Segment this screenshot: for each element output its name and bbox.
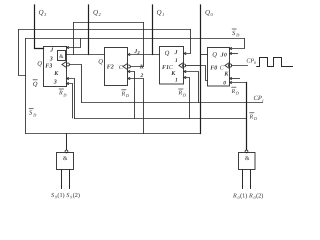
wire F1 K pin: [184, 72, 199, 103]
wire R0 input pins: [243, 170, 251, 189]
svg-text:S: S: [66, 192, 69, 199]
svg-text:D: D: [235, 91, 239, 96]
pin wedge F0 S: [230, 47, 232, 49]
svg-text:R: R: [121, 91, 126, 97]
wire S9 input pins: [62, 170, 70, 189]
svg-text:0: 0: [224, 53, 227, 59]
svg-text:(1): (1): [57, 192, 64, 199]
svg-text:&: &: [63, 156, 68, 162]
wire F1 RD pin: [184, 78, 190, 119]
wire L1 Q1 feedback top: [74, 22, 144, 24]
svg-text:D: D: [253, 116, 257, 121]
svg-text:&: &: [245, 156, 250, 162]
wire F3 clock to CP1: [69, 65, 81, 103]
label RD under F0: [231, 87, 239, 95]
wire F1 Q pin: [144, 54, 160, 56]
wire F1 clock from Q0: [186, 65, 201, 67]
wire L1 drop to AND line: [73, 23, 75, 55]
svg-text:F2: F2: [107, 64, 114, 70]
svg-text:1: 1: [262, 98, 264, 103]
svg-text:D: D: [235, 33, 239, 38]
svg-text:S: S: [51, 192, 54, 199]
clock wedge F3: [62, 62, 67, 68]
pin wedge F0 K: [230, 77, 232, 79]
svg-text:D: D: [182, 92, 186, 97]
clock wedge F1: [179, 63, 184, 69]
pin wedge F3 J: [67, 46, 69, 48]
svg-text:1: 1: [162, 12, 164, 17]
label F3 Q outputs: [33, 60, 43, 88]
wire Q3 riser: [35, 5, 44, 49]
wire F3 K pin: [67, 79, 75, 119]
wire Q2 riser: [88, 5, 90, 55]
wire F0 Qbar link: [201, 66, 208, 81]
svg-text:&: &: [59, 54, 64, 60]
wire F2 K pin: [128, 72, 135, 119]
label Q2: [93, 8, 102, 17]
label RD under F3: [58, 89, 66, 97]
pin wedge F0 J: [230, 52, 232, 54]
wire F2 RD pin: [128, 79, 144, 134]
label J2 K 2 right of F2: [133, 49, 145, 79]
pin wedge F3 RD: [67, 82, 69, 84]
flip-flop F0 box: [208, 48, 230, 87]
flip-flop F2 box: [105, 48, 128, 86]
label Q1: [157, 8, 165, 17]
svg-text:D: D: [125, 93, 129, 98]
wire SD entry to F0: [230, 39, 245, 49]
label RD under F2: [121, 90, 129, 98]
svg-text:0: 0: [223, 81, 226, 87]
wire CP1 line: [82, 102, 263, 104]
NAND gate R0 (right): [245, 150, 248, 153]
wire F3 RD pin: [67, 84, 73, 119]
pin wedge F1 J: [184, 52, 186, 54]
label SD top right: [232, 29, 239, 38]
clock bubble F1: [183, 64, 186, 67]
svg-text:Q: Q: [93, 8, 98, 16]
label RD right riser: [249, 113, 257, 121]
clock bubble F0: [229, 64, 232, 67]
wire Q1 riser: [152, 5, 154, 55]
svg-text:D: D: [62, 92, 66, 97]
svg-text:Q: Q: [157, 8, 162, 16]
clock bubble F2: [127, 65, 130, 68]
label F3 internals: [45, 47, 59, 85]
clock wedge F0: [225, 63, 230, 69]
label F1 internals: [162, 50, 179, 83]
wire SD riser left: [25, 39, 27, 134]
svg-text:Q: Q: [39, 8, 44, 16]
svg-text:R: R: [248, 192, 253, 199]
wire bottom line: [26, 133, 201, 135]
svg-text:Q: Q: [165, 50, 170, 57]
pin wedge F1 K: [184, 70, 186, 72]
svg-text:R: R: [58, 91, 63, 97]
wire F0 RD to right gate: [230, 82, 247, 84]
wire F0 J stub: [230, 53, 238, 55]
pin wedge F0 RD: [230, 81, 232, 83]
clock bubble F3: [66, 63, 69, 66]
svg-text:Q: Q: [205, 8, 210, 16]
label SD left: [29, 109, 36, 118]
svg-text:1: 1: [175, 77, 178, 83]
label S9(1) S9(2): [51, 192, 80, 200]
svg-text:(2): (2): [256, 192, 263, 199]
svg-text:R: R: [178, 91, 183, 97]
svg-text:1: 1: [175, 58, 178, 64]
NAND gate S9 (left): [66, 134, 68, 151]
wire L4 set line: [26, 38, 245, 40]
pin wedge F2 RD: [128, 77, 130, 79]
label F2 internals: [98, 59, 124, 71]
label F0 internals: [210, 52, 229, 87]
svg-text:Q: Q: [98, 59, 103, 66]
svg-text:Q: Q: [37, 60, 42, 67]
svg-text:3: 3: [53, 79, 57, 85]
svg-text:F0: F0: [210, 66, 217, 72]
svg-text:Q: Q: [212, 52, 217, 59]
svg-text:R: R: [232, 192, 237, 199]
svg-text:R: R: [249, 114, 254, 120]
label Q3: [39, 8, 48, 17]
label RD under F1: [178, 89, 186, 97]
wire Q0 to F0 Q pin: [201, 54, 208, 56]
pin wedge F3 K: [67, 77, 69, 79]
svg-text:Q: Q: [33, 81, 38, 88]
svg-text:3: 3: [49, 57, 53, 63]
wire F0 clock CP0: [232, 65, 248, 67]
clock wedge F2: [123, 64, 128, 70]
flip-flop F3 box: [44, 47, 67, 87]
wire F1 J pin: [184, 30, 191, 54]
svg-text:F3: F3: [45, 63, 52, 69]
pin wedge F2 K: [128, 70, 130, 72]
svg-text:2: 2: [140, 73, 144, 79]
wire left frame link: [19, 30, 26, 76]
AND gate embedded on F3 J input: [58, 51, 66, 61]
wire F3 J pin: [67, 39, 81, 48]
pin wedge F1 RD: [184, 76, 186, 78]
label CP0 near waveform: [246, 59, 257, 66]
wire F3 AND input from Q2: [66, 54, 105, 56]
svg-text:CP: CP: [254, 95, 262, 102]
wire F0 K stub: [230, 78, 240, 80]
label CP1 on line: [254, 95, 264, 103]
pin wedge F2 J2: [128, 53, 130, 55]
svg-text:(1): (1): [240, 192, 247, 199]
wire mid line y118: [75, 118, 247, 120]
flip-flop F1 box: [160, 47, 184, 85]
label R0(1) R0(2): [232, 192, 263, 200]
wire Q0 riser: [200, 5, 202, 134]
svg-text:(2): (2): [73, 192, 80, 199]
label Q0: [205, 8, 214, 17]
wire F2 clock from L1: [130, 23, 143, 67]
wire F2 J2 pin: [128, 54, 144, 56]
clock waveform: [257, 58, 293, 67]
svg-text:R: R: [231, 89, 236, 95]
svg-text:D: D: [32, 112, 36, 117]
wire L2 top: [19, 29, 191, 31]
